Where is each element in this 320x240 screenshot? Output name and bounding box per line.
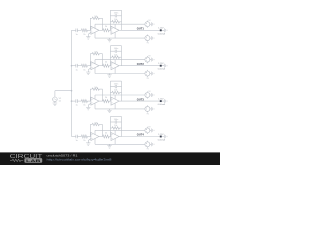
wire input row — [72, 100, 76, 102]
svg-text:1.25V: 1.25V — [158, 98, 164, 100]
resistor R3d feedback 2 — [110, 90, 121, 94]
wire V- rail — [95, 108, 145, 110]
resistor R1a input — [81, 29, 87, 36]
svg-text:100n: 100n — [114, 13, 118, 15]
ground V+ rail block 1 — [151, 22, 154, 26]
capacitor C3b feedback — [110, 84, 121, 89]
dc source V3p — [145, 91, 150, 98]
capacitor C1b feedback — [110, 13, 121, 18]
svg-text:sin: sin — [59, 101, 62, 103]
wire op-amp2 V- pin — [114, 32, 116, 38]
resistor R1b feedback 1 — [90, 16, 102, 19]
wire output — [119, 29, 121, 31]
wire output — [119, 136, 121, 138]
wire non-inverting input to ground — [88, 32, 91, 34]
wire to second op-amp — [109, 29, 111, 31]
svg-text:100n: 100n — [114, 84, 118, 86]
svg-text:10k: 10k — [114, 90, 117, 92]
resistor R3c stage link — [103, 97, 110, 103]
voltage source V1 — [53, 97, 62, 103]
wire op-amp V- pin — [94, 103, 96, 109]
svg-text:10k: 10k — [94, 52, 97, 54]
ground V- rail end block 3 — [151, 107, 154, 111]
wire — [150, 129, 152, 131]
dc source V1m — [145, 35, 150, 42]
wire — [77, 100, 81, 102]
wire non-inverting input to ground — [88, 139, 91, 141]
wire feedback top edge — [110, 9, 121, 11]
wire op-amp2 V+ pin — [114, 24, 116, 28]
svg-text:OUT2: OUT2 — [137, 62, 144, 66]
wire feedback tap up — [89, 89, 91, 101]
resistor R1c stage link — [103, 26, 110, 32]
node bus junction row3 — [71, 100, 73, 102]
svg-text:1.25V: 1.25V — [158, 63, 164, 65]
wire feedback right vertical — [121, 117, 123, 137]
wire feedback top edge — [110, 80, 121, 82]
wire to second op-amp — [109, 136, 111, 138]
capacitor C2b feedback — [110, 48, 121, 53]
op-amp U2a — [91, 62, 99, 70]
ground V- rail block 2 — [107, 74, 111, 78]
wire feedback down to output — [102, 18, 104, 30]
op-amp U1b — [111, 26, 119, 34]
op-amp U2b — [111, 62, 119, 70]
capacitor C2a input coupling — [75, 64, 77, 71]
wire V+ rail — [95, 94, 145, 96]
ground output row 3 — [164, 99, 167, 103]
svg-text:100n: 100n — [114, 48, 118, 50]
op-amp U3a — [91, 97, 99, 105]
wire — [150, 94, 152, 96]
node feed junction — [71, 90, 73, 92]
wire input row — [72, 29, 76, 31]
svg-text:OUT1: OUT1 — [137, 27, 144, 31]
dc source V3m — [145, 105, 150, 112]
wire to op-amp inverting input — [87, 100, 91, 102]
ground block 4 left — [86, 142, 90, 146]
wire op-amp2 V- pin — [114, 139, 116, 145]
svg-text:0.00mA: 0.00mA — [158, 68, 166, 71]
wire V+ rail — [95, 129, 145, 131]
svg-text:10k: 10k — [94, 87, 97, 89]
ground block 3 left — [86, 106, 90, 110]
wire feedback left vertical — [109, 117, 111, 137]
wire feedback down to output — [102, 54, 104, 66]
svg-text:10k: 10k — [94, 16, 97, 18]
wire — [150, 37, 152, 39]
wire input row — [72, 65, 76, 67]
watermark bar — [0, 152, 220, 165]
capacitor C1a input coupling — [75, 29, 77, 36]
svg-text:1u: 1u — [75, 69, 77, 71]
wire to op-amp inverting input — [87, 29, 91, 31]
wire feedback tap up — [89, 18, 91, 30]
svg-text:0.00mA: 0.00mA — [158, 103, 166, 106]
wire op-amp2 V+ pin — [114, 130, 116, 134]
svg-text:2k: 2k — [105, 132, 107, 134]
wire source feed — [55, 90, 72, 92]
wire feedback tap up — [89, 125, 91, 137]
svg-text:2k: 2k — [105, 26, 107, 28]
wire — [77, 136, 81, 138]
wire feedback right vertical — [121, 46, 123, 66]
svg-text:LAB: LAB — [26, 158, 41, 163]
svg-text:2k: 2k — [105, 97, 107, 99]
ground output row 4 — [164, 135, 167, 139]
svg-text:1k: 1k — [83, 69, 85, 71]
svg-text:2k: 2k — [105, 62, 107, 64]
wire feedback left vertical — [109, 81, 111, 101]
svg-text:1u: 1u — [75, 34, 77, 36]
op-amp U4a — [91, 133, 99, 141]
wire op-amp2 V- pin — [114, 68, 116, 74]
resistor R4d feedback 2 — [110, 125, 121, 129]
wire op-amp V+ pin — [94, 130, 96, 134]
wire — [150, 59, 152, 61]
probe node block 1 — [158, 28, 166, 36]
wire feedback left vertical — [109, 46, 111, 66]
ground V- rail end block 4 — [151, 142, 154, 146]
resistor R3b feedback 1 — [90, 87, 102, 90]
svg-text:1.25V: 1.25V — [158, 28, 164, 30]
wire op-amp2 V+ pin — [114, 95, 116, 99]
ground output row 2 — [164, 64, 167, 68]
wire op-amp V- pin — [94, 68, 96, 74]
svg-text:OUT4: OUT4 — [137, 133, 144, 137]
resistor R4c stage link — [103, 132, 110, 138]
wire non-inverting input to ground — [88, 103, 91, 105]
wire feedback down to output — [102, 89, 104, 101]
ground block 2 left — [86, 71, 90, 75]
svg-text:10k: 10k — [94, 122, 97, 124]
svg-text:1k: 1k — [83, 34, 85, 36]
wire op-amp V- pin — [94, 139, 96, 145]
wire V+ rail — [95, 23, 145, 25]
wire V- rail — [95, 37, 145, 39]
wire to op-amp inverting input — [87, 65, 91, 67]
op-amp U4b — [111, 133, 119, 141]
ground V- rail block 4 — [107, 144, 111, 148]
svg-text:http://circuitlab.com/c/kpy4q8: http://circuitlab.com/c/kpy4q8e3m8 — [47, 158, 112, 162]
wire stage link — [99, 136, 103, 138]
ground for V1 — [53, 102, 58, 106]
wire source stub — [54, 91, 56, 97]
svg-text:10k: 10k — [114, 125, 117, 127]
wire stage link — [99, 29, 103, 31]
capacitor C4a input coupling — [75, 135, 77, 142]
wire feedback top edge — [110, 45, 121, 47]
wire to second op-amp — [109, 65, 111, 67]
op-amp U1a — [91, 26, 99, 34]
svg-text:100n: 100n — [114, 119, 118, 121]
op-amp U3b — [111, 97, 119, 105]
wire stage link — [99, 65, 103, 67]
wire V- rail — [95, 143, 145, 145]
wire op-amp2 V+ pin — [114, 60, 116, 64]
svg-text:1k: 1k — [83, 105, 85, 107]
wire V- rail — [95, 73, 145, 75]
svg-text:1.25V: 1.25V — [158, 134, 164, 136]
wire non-inverting input to ground — [88, 68, 91, 70]
wire feedback right vertical — [121, 10, 123, 30]
dc source V4p — [145, 127, 150, 134]
svg-text:0.00mA: 0.00mA — [158, 32, 166, 35]
CircuitLab logo — [10, 154, 44, 163]
wire output — [119, 100, 121, 102]
resistor R4b feedback 1 — [90, 122, 102, 125]
wire feedback tap up — [89, 54, 91, 66]
wire — [150, 73, 152, 75]
wire — [150, 23, 152, 25]
wire op-amp V+ pin — [94, 24, 96, 28]
wire — [77, 29, 81, 31]
wire feedback right vertical — [121, 81, 123, 101]
capacitor C3a input coupling — [75, 99, 77, 106]
dc source V2p — [145, 56, 150, 63]
wire feedback left vertical — [109, 10, 111, 30]
ground block 1 left — [86, 35, 90, 39]
wire input row — [72, 136, 76, 138]
wire op-amp2 V- pin — [114, 103, 116, 109]
wire op-amp V+ pin — [94, 95, 96, 99]
wire — [77, 65, 81, 67]
ground output row 1 — [164, 28, 167, 32]
ground V+ rail block 4 — [151, 128, 154, 132]
ground V- rail end block 2 — [151, 72, 154, 76]
probe node block 2 — [158, 63, 166, 71]
svg-text:0.00mA: 0.00mA — [158, 139, 166, 142]
wire to op-amp inverting input — [87, 136, 91, 138]
dc source V1p — [145, 21, 150, 28]
wire to second op-amp — [109, 100, 111, 102]
wire op-amp V+ pin — [94, 60, 96, 64]
svg-text:10k: 10k — [114, 19, 117, 21]
ground V+ rail block 2 — [151, 58, 154, 62]
probe node block 4 — [158, 134, 166, 142]
ground V- rail block 1 — [107, 38, 111, 42]
svg-text:10k: 10k — [114, 54, 117, 56]
resistor R4a input — [81, 135, 87, 142]
svg-text:1u: 1u — [75, 105, 77, 107]
wire — [150, 143, 152, 145]
wire stage link — [99, 100, 103, 102]
wire feedback down to output — [102, 125, 104, 137]
node bus junction row2 — [71, 65, 73, 67]
wire V+ rail — [95, 59, 145, 61]
svg-text:1k: 1k — [83, 140, 85, 142]
resistor R3a input — [81, 100, 87, 107]
resistor R2d feedback 2 — [110, 54, 121, 58]
probe node block 3 — [158, 98, 166, 106]
svg-text:OUT3: OUT3 — [137, 97, 144, 101]
wire op-amp V- pin — [94, 32, 96, 38]
dc source V2m — [145, 70, 150, 77]
wire output — [119, 65, 121, 67]
ground V- rail block 3 — [107, 109, 111, 113]
resistor R2a input — [81, 64, 87, 71]
ground V- rail end block 1 — [151, 36, 154, 40]
wire — [150, 108, 152, 110]
capacitor C4b feedback — [110, 119, 121, 124]
wire feedback top edge — [110, 116, 121, 118]
resistor R1d feedback 2 — [110, 19, 121, 23]
resistor R2c stage link — [103, 62, 110, 68]
dc source V4m — [145, 141, 150, 148]
ground V+ rail block 3 — [151, 93, 154, 97]
svg-text:1u: 1u — [75, 140, 77, 142]
resistor R2b feedback 1 — [90, 52, 102, 55]
wire input bus — [71, 30, 73, 136]
